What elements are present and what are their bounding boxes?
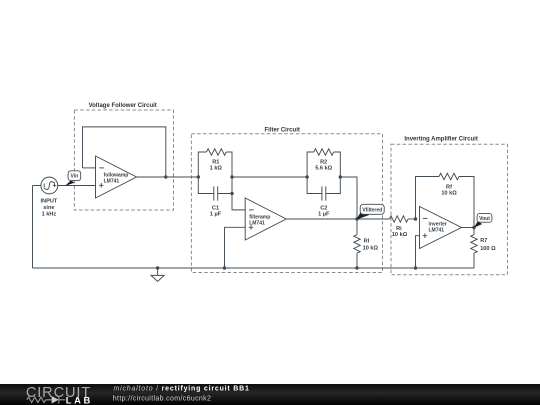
capacitor C2 1 uF	[307, 177, 340, 217]
svg-text:100 Ω: 100 Ω	[480, 246, 496, 252]
svg-text:followamp: followamp	[104, 172, 129, 178]
svg-text:10 kΩ: 10 kΩ	[441, 191, 457, 197]
wire source left lead	[33, 185, 41, 187]
wire follower feedback	[83, 127, 166, 177]
node C1 right	[230, 192, 233, 195]
inverting amplifier circuit box	[391, 137, 508, 275]
svg-text:1 kHz: 1 kHz	[42, 212, 57, 218]
svg-text:LM741: LM741	[249, 221, 265, 227]
node inverter + ground junction	[414, 266, 417, 269]
op-amp U1 followamp LM741	[96, 156, 137, 198]
wire filteramp output	[286, 218, 389, 220]
ground	[151, 268, 164, 281]
node filteramp + ground junction	[223, 266, 226, 269]
svg-text:1 µF: 1 µF	[210, 211, 222, 217]
wire filteramp - input	[232, 194, 245, 210]
svg-text:Inverting Amplifier Circuit: Inverting Amplifier Circuit	[404, 137, 477, 143]
svg-text:R7: R7	[480, 238, 487, 244]
resistor R1 1 kOhm	[198, 149, 232, 177]
node R1 right	[230, 175, 233, 178]
svg-text:Ri: Ri	[396, 226, 402, 232]
wire inverter output	[462, 227, 475, 229]
wire filteramp + input	[225, 227, 246, 268]
flag Vin	[65, 171, 81, 186]
svg-text:inverter: inverter	[429, 221, 447, 227]
voltage source V1 INPUT sine 1 kHz	[41, 177, 58, 218]
svg-text:LAB: LAB	[66, 395, 93, 405]
footer text	[113, 385, 250, 402]
svg-text:Vout: Vout	[479, 216, 490, 222]
wire follower output	[137, 176, 199, 178]
capacitor C1 1 uF	[198, 177, 232, 217]
voltage follower circuit box	[74, 103, 173, 210]
node inverter - junction	[414, 217, 417, 220]
resistor Ri 10 kOhm	[390, 216, 416, 238]
svg-text:http://circuitlab.com/c6ucnk2: http://circuitlab.com/c6ucnk2	[113, 395, 211, 402]
resistor RI 10 kOhm	[354, 219, 379, 268]
svg-text:1 µF: 1 µF	[318, 211, 330, 217]
svg-text:Filter Circuit: Filter Circuit	[265, 128, 300, 134]
wire inverter + input	[416, 236, 420, 268]
op-amp U3 inverter LM741	[420, 207, 462, 249]
svg-text:sine: sine	[43, 205, 54, 211]
svg-text:LM741: LM741	[429, 228, 445, 234]
resistor R2 5.6 kOhm	[307, 149, 340, 177]
svg-text:1 kΩ: 1 kΩ	[210, 165, 223, 171]
svg-text:RI: RI	[364, 238, 370, 244]
node RI bottom	[355, 266, 358, 269]
node R2 left	[305, 175, 308, 178]
flag Vfiltered	[356, 204, 384, 219]
svg-text:INPUT: INPUT	[41, 198, 58, 204]
logo CIRCUIT LAB	[26, 385, 93, 405]
node R2 right	[339, 175, 342, 178]
wire follower - input	[83, 167, 96, 169]
node R1 left	[197, 175, 200, 178]
svg-text:Voltage Follower Circuit: Voltage Follower Circuit	[89, 103, 157, 109]
svg-text:5.6 kΩ: 5.6 kΩ	[315, 165, 332, 171]
node follower output junction	[164, 175, 167, 178]
svg-text:10 kΩ: 10 kΩ	[392, 232, 408, 238]
wire bottom rail	[33, 267, 475, 269]
resistor Rf 10 kOhm	[416, 173, 475, 227]
wire source to follower + input	[58, 185, 96, 187]
flag Vout	[474, 214, 492, 228]
resistor R7 100 Ohm	[471, 228, 496, 269]
wire R2 to Vfiltered column	[340, 177, 357, 219]
node Vout junction	[472, 226, 475, 229]
node Vfiltered junction	[355, 217, 358, 220]
wire left rail down	[32, 186, 34, 269]
node ground junction	[156, 266, 159, 269]
svg-text:10 kΩ: 10 kΩ	[363, 246, 379, 252]
svg-text:LM741: LM741	[104, 179, 120, 185]
wire R1 to R2	[232, 176, 307, 178]
svg-text:Vin: Vin	[71, 174, 79, 180]
svg-text:Vfiltered: Vfiltered	[362, 208, 382, 214]
svg-text:michaltoto / rectifying circui: michaltoto / rectifying circuit BB1	[114, 385, 250, 392]
op-amp U2 filteramp LM741	[245, 198, 286, 240]
svg-text:Rf: Rf	[446, 184, 452, 190]
svg-text:filteramp: filteramp	[249, 214, 270, 220]
filter circuit box	[191, 128, 382, 273]
